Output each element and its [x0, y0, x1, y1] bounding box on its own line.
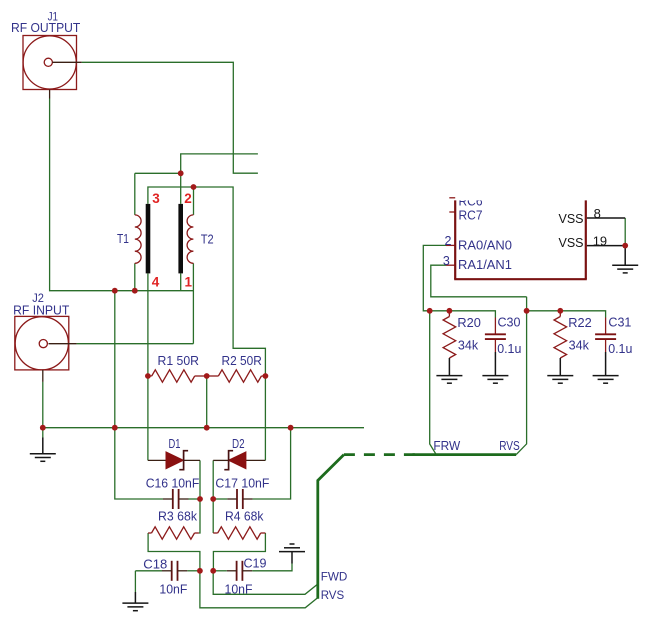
svg-text:R4 68k: R4 68k: [225, 509, 264, 524]
svg-text:10nF: 10nF: [159, 582, 187, 596]
svg-text:4: 4: [152, 274, 160, 289]
svg-text:10nF: 10nF: [225, 582, 253, 596]
svg-text:VSS: VSS: [559, 211, 584, 226]
svg-text:0.1u: 0.1u: [497, 342, 521, 356]
svg-text:VSS: VSS: [559, 235, 584, 250]
svg-text:C19: C19: [244, 557, 267, 571]
svg-text:R1 50R: R1 50R: [158, 353, 200, 368]
svg-text:34k: 34k: [569, 338, 590, 352]
svg-text:3: 3: [443, 254, 450, 268]
svg-text:T2: T2: [201, 233, 214, 247]
svg-text:C18: C18: [143, 557, 167, 571]
svg-text:C31: C31: [608, 316, 631, 330]
svg-text:T1: T1: [117, 232, 129, 246]
svg-text:8: 8: [594, 206, 601, 221]
svg-text:R3 68k: R3 68k: [158, 509, 197, 524]
svg-text:2: 2: [444, 234, 451, 248]
svg-text:RA0/AN0: RA0/AN0: [458, 237, 512, 252]
svg-text:D2: D2: [232, 437, 245, 451]
svg-text:3: 3: [152, 191, 160, 206]
svg-text:0.1u: 0.1u: [608, 342, 632, 356]
svg-text:2: 2: [184, 191, 192, 206]
svg-text:D1: D1: [169, 437, 181, 451]
svg-text:C17 10nF: C17 10nF: [215, 475, 269, 490]
svg-text:C30: C30: [498, 316, 521, 330]
svg-text:RF OUTPUT: RF OUTPUT: [11, 20, 80, 35]
svg-text:RC7: RC7: [459, 208, 483, 222]
svg-text:C16 10nF: C16 10nF: [146, 475, 200, 490]
svg-text:1: 1: [185, 274, 193, 289]
svg-text:34k: 34k: [458, 338, 479, 352]
svg-text:RVS: RVS: [321, 588, 345, 602]
svg-text:R20: R20: [457, 316, 481, 330]
svg-text:RF INPUT: RF INPUT: [13, 303, 69, 318]
svg-text:R2 50R: R2 50R: [222, 353, 262, 368]
svg-text:RA1/AN1: RA1/AN1: [458, 257, 512, 272]
svg-text:RVS: RVS: [499, 439, 520, 453]
svg-text:FWD: FWD: [321, 569, 348, 583]
svg-text:19: 19: [593, 233, 607, 248]
svg-text:R22: R22: [568, 316, 592, 330]
svg-text:FRW: FRW: [433, 439, 460, 453]
